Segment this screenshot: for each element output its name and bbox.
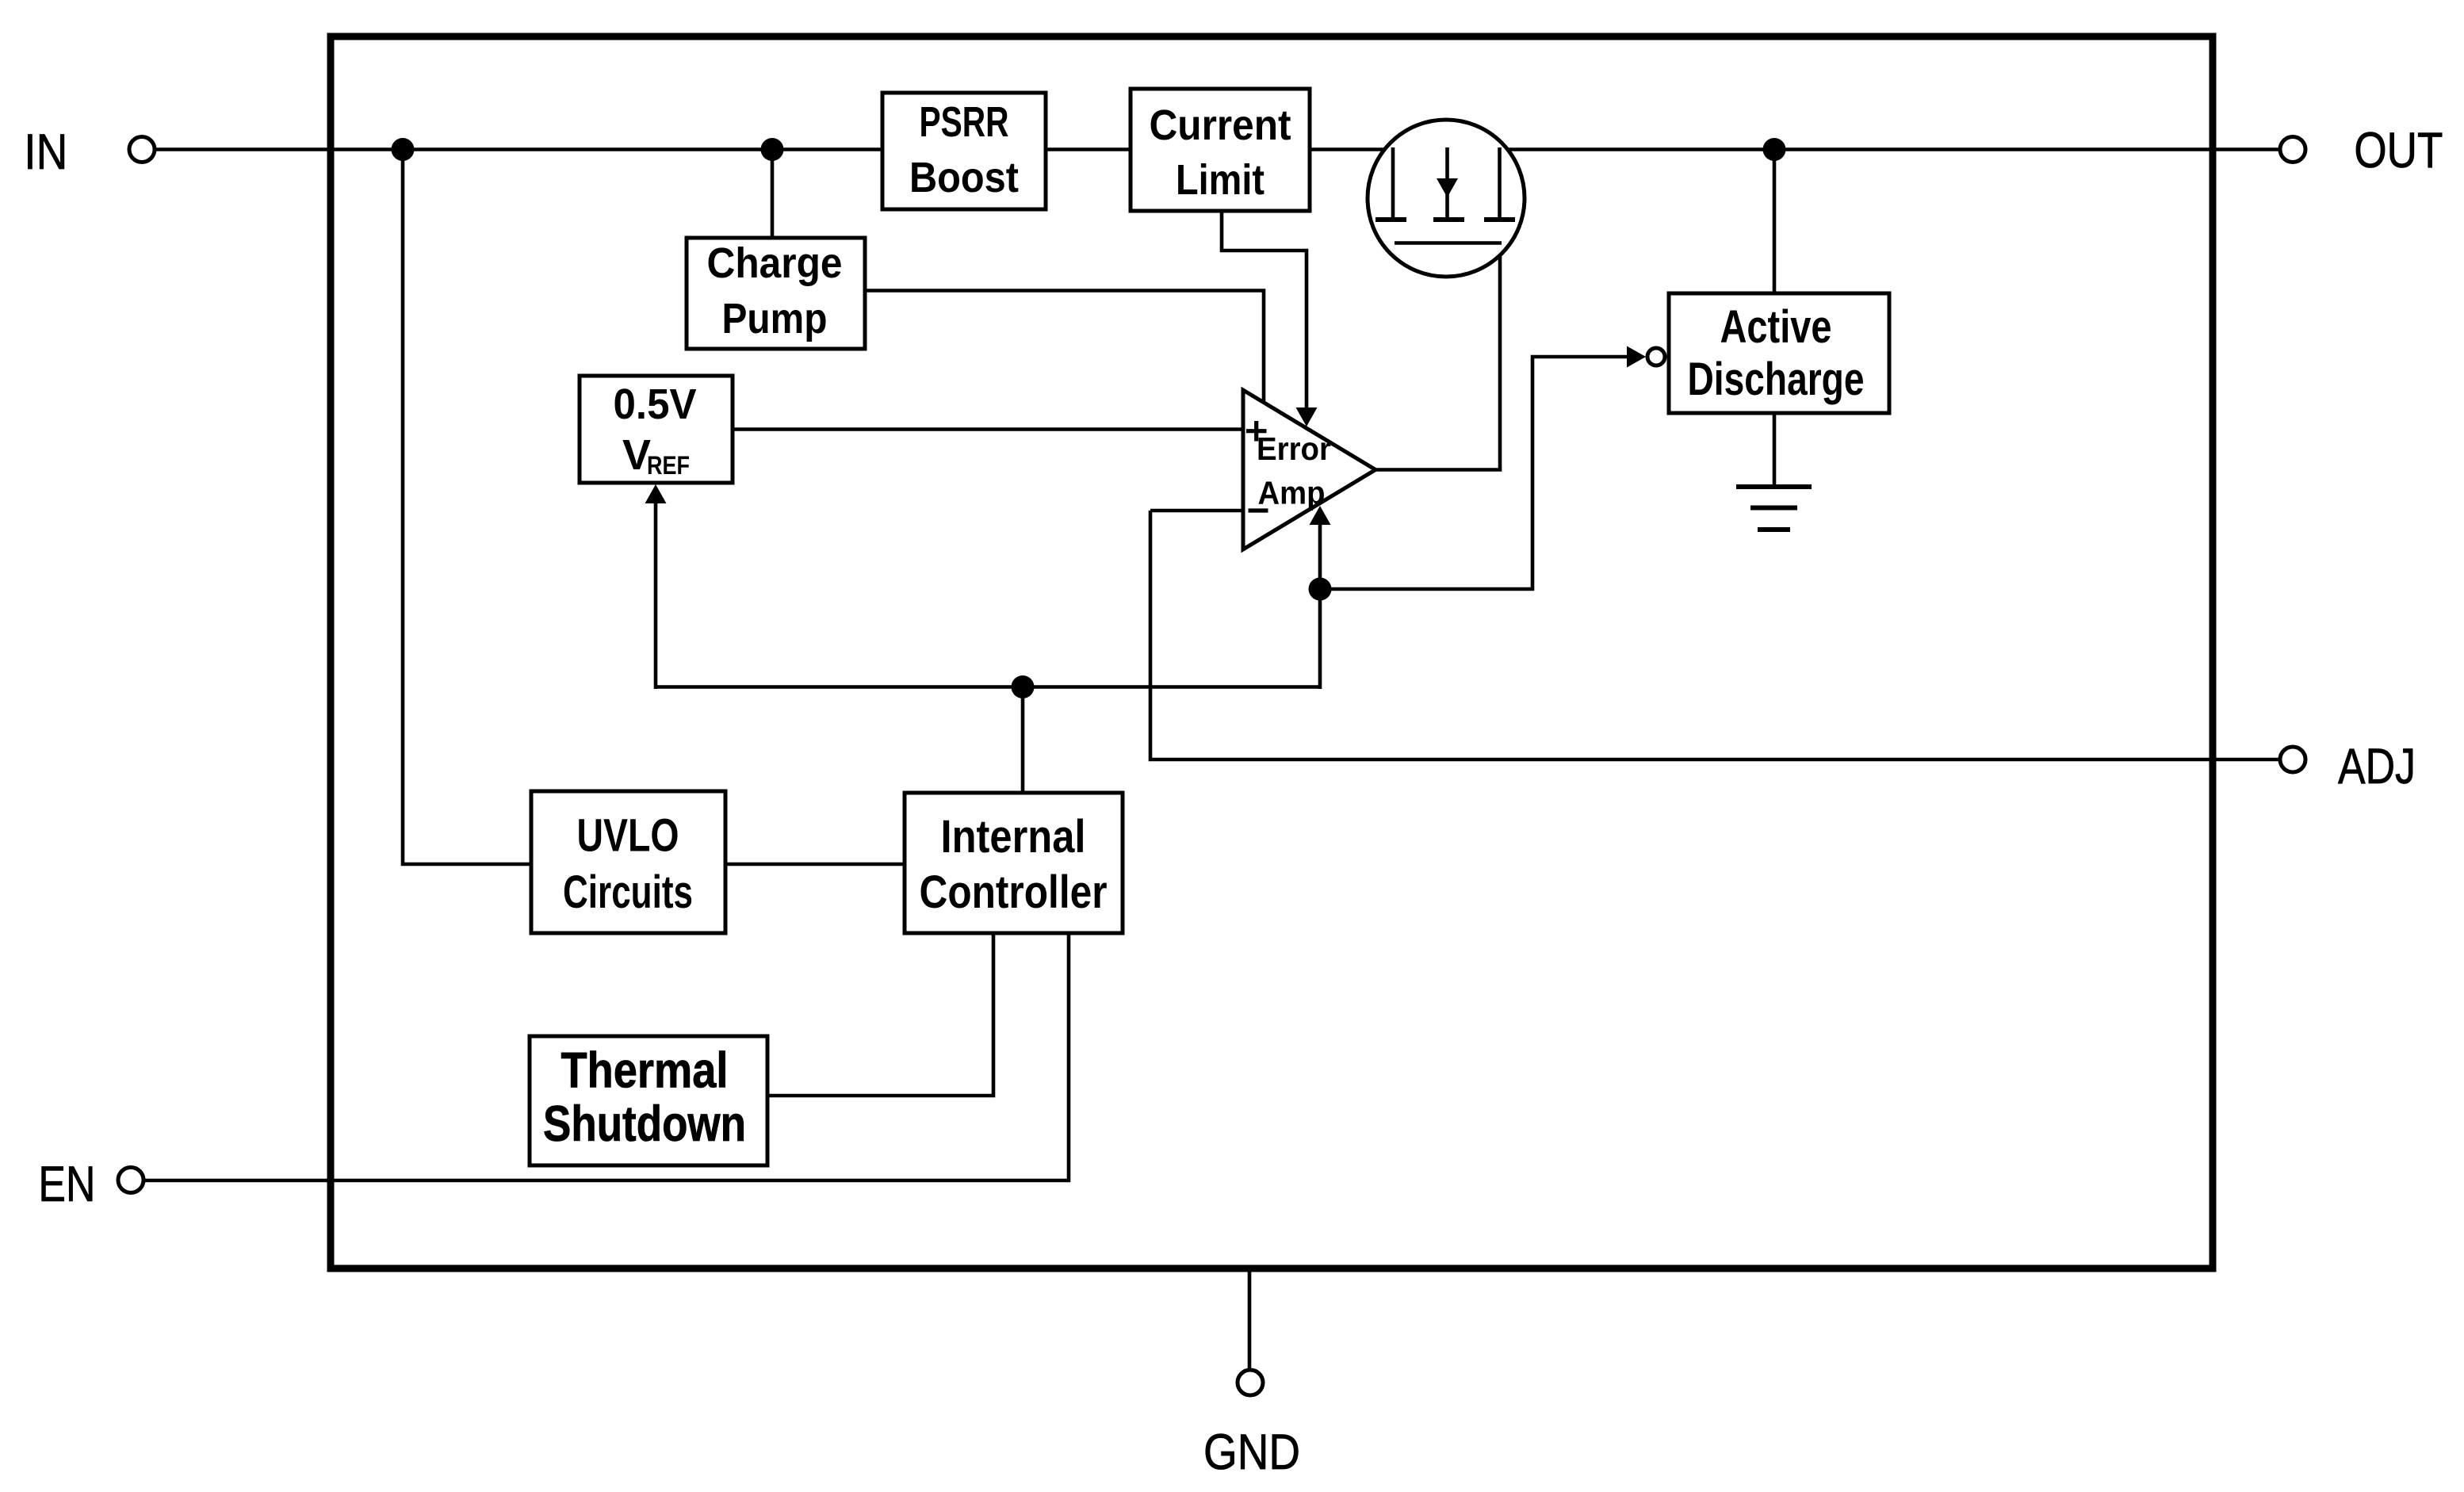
arrow current limit into error amp — [1296, 407, 1318, 427]
wire EN to internal controller — [144, 932, 1069, 1180]
node junction dot IN branch — [392, 138, 415, 161]
svg-text:Amp: Amp — [1258, 475, 1326, 511]
wire UVLO to internal controller — [725, 863, 905, 867]
node junction dot OUT branch — [1763, 138, 1786, 161]
box UVLO Circuits — [531, 791, 725, 933]
wire feedback to active discharge — [1320, 357, 1628, 589]
wire VREF to + input — [731, 427, 1243, 431]
svg-text:REF: REF — [647, 451, 690, 480]
wire OUT branch to active discharge — [1773, 150, 1777, 296]
pin EN terminal — [38, 1157, 143, 1212]
box 0.5V VREF — [580, 376, 733, 483]
box Active Discharge — [1669, 293, 1889, 413]
inverter bubble active discharge — [1647, 348, 1665, 365]
transistor drain leg — [1484, 147, 1515, 220]
svg-text:Error: Error — [1257, 430, 1331, 467]
svg-text:Shutdown: Shutdown — [543, 1096, 746, 1152]
svg-text:Limit: Limit — [1176, 156, 1265, 204]
svg-text:ADJ: ADJ — [2338, 739, 2416, 794]
transistor body leg with arrow — [1433, 147, 1464, 220]
wire thermal shutdown to internal controller — [766, 932, 993, 1096]
box PSRR Boost — [882, 93, 1046, 209]
wire feedback arrow into error amp — [1318, 517, 1322, 589]
wire IN rail right segment to OUT — [1448, 147, 2281, 151]
box Internal Controller — [905, 793, 1123, 933]
node junction dot feedback — [1012, 675, 1035, 698]
box Thermal Shutdown — [530, 1036, 767, 1165]
box Charge Pump — [687, 238, 865, 349]
ground symbol — [1736, 487, 1812, 530]
svg-text:IN: IN — [24, 124, 67, 180]
svg-text:UVLO: UVLO — [577, 810, 679, 862]
node junction dot charge pump — [761, 138, 784, 161]
arrow feedback into error amp — [1310, 506, 1331, 525]
svg-text:Thermal: Thermal — [561, 1043, 729, 1099]
pin IN terminal — [24, 124, 155, 180]
svg-text:Charge: Charge — [707, 239, 843, 287]
op-amp error amplifier triangle — [1243, 390, 1375, 549]
wire IN branch down to UVLO — [403, 150, 531, 865]
svg-text:Controller: Controller — [920, 867, 1108, 918]
wire charge pump feed — [771, 150, 775, 240]
svg-text:Circuits: Circuits — [563, 867, 693, 918]
pin OUT terminal — [2280, 123, 2443, 178]
node junction dot error amp feedback — [1309, 578, 1332, 601]
svg-text:Discharge: Discharge — [1688, 354, 1865, 405]
svg-text:PSRR: PSRR — [920, 98, 1009, 146]
wire active discharge to ground — [1773, 411, 1777, 485]
box Current Limit — [1131, 89, 1310, 211]
wire VREF arrow stem — [654, 498, 658, 689]
arrow into VREF — [645, 484, 667, 503]
wire feedback to internal controller — [1021, 687, 1025, 795]
svg-text:Current: Current — [1150, 101, 1291, 149]
transistor pass FET circle — [1368, 120, 1525, 277]
transistor source leg — [1375, 147, 1406, 220]
svg-text:Pump: Pump — [722, 295, 828, 342]
wire feedback node riser — [1318, 589, 1322, 689]
outer IC boundary — [331, 36, 2213, 1268]
svg-text:Internal: Internal — [941, 811, 1086, 863]
svg-text:EN: EN — [38, 1157, 95, 1212]
wire IN rail left segment — [155, 147, 1393, 151]
wire charge pump output to error amp — [863, 291, 1264, 403]
wire GND stub — [1248, 1268, 1252, 1368]
wire reference feedback horizontal — [656, 685, 1320, 689]
svg-text:Boost: Boost — [909, 154, 1019, 201]
wire error amp output to gate — [1374, 243, 1500, 470]
pin GND terminal — [1203, 1370, 1300, 1480]
wire current limit to error amp — [1222, 209, 1307, 415]
pin ADJ terminal — [2280, 739, 2416, 794]
svg-text:0.5V: 0.5V — [614, 381, 697, 428]
wire ADJ feedback to minus input — [1150, 511, 2280, 759]
svg-text:Active: Active — [1720, 301, 1832, 353]
svg-text:OUT: OUT — [2354, 123, 2443, 178]
svg-text:GND: GND — [1203, 1425, 1300, 1480]
transistor gate bar — [1395, 241, 1502, 245]
wire minus input — [1150, 509, 1243, 513]
arrow into active discharge — [1627, 346, 1646, 368]
